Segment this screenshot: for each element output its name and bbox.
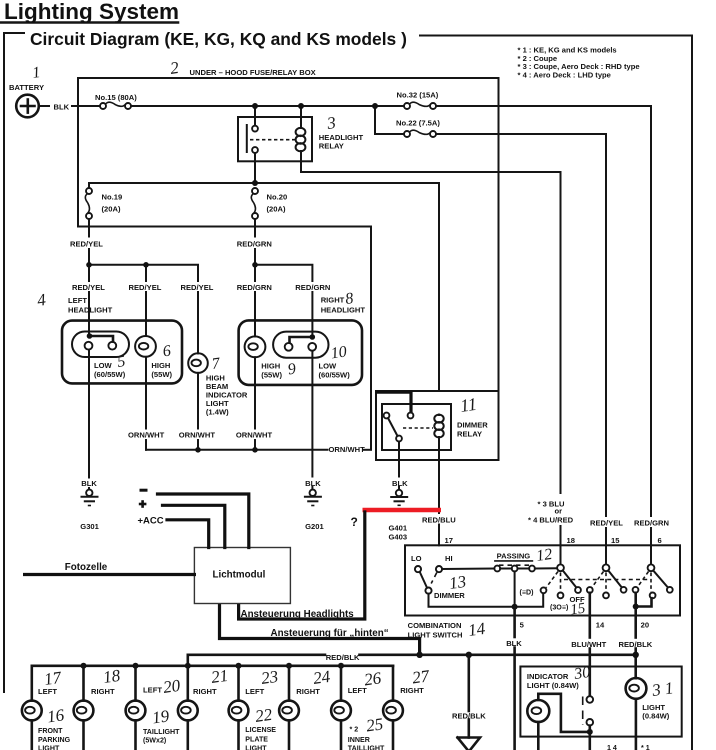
pole 15 lower contact	[603, 593, 609, 599]
svg-text:3 1: 3 1	[650, 678, 675, 700]
modified wire Fotozelle input	[25, 573, 195, 576]
wire: fused rail y183 from fuse No.19 to dimmer relay coil drop	[89, 183, 439, 391]
light 31 bulb (0.84W)	[626, 678, 647, 699]
svg-text:RED/GRN: RED/GRN	[634, 519, 669, 528]
fuse No.15 (80A)	[100, 102, 131, 109]
junction node rail y183 at relay output	[252, 180, 258, 186]
svg-text:TAILLIGHT: TAILLIGHT	[143, 728, 180, 736]
fuse No.19 (20A) vertical	[85, 188, 92, 219]
svg-text:(20A): (20A)	[102, 205, 121, 214]
svg-text:Circuit Diagram (KE, KG, KQ an: Circuit Diagram (KE, KG, KQ and KS model…	[30, 29, 407, 49]
junction node pin 20	[633, 604, 639, 610]
wire: indicator bulb feed loop	[538, 694, 590, 732]
Lichtmodul box	[194, 548, 290, 604]
svg-text:G401: G401	[389, 524, 408, 533]
svg-text:26: 26	[363, 668, 383, 689]
left high beam bulb 6 (55W)	[135, 336, 156, 357]
dimmer relay 11 outer case	[376, 391, 499, 460]
junction node bus end at pin 20 lead	[633, 652, 639, 658]
svg-text:(55W): (55W)	[151, 370, 172, 379]
switch inside indicator unit	[587, 696, 594, 703]
svg-text:UNDER – HOOD FUSE/RELAY BOX: UNDER – HOOD FUSE/RELAY BOX	[190, 68, 316, 77]
svg-text:LIGHT: LIGHT	[38, 745, 60, 750]
svg-text:RELAY: RELAY	[457, 430, 482, 439]
lamp 24 RIGHT license plate	[279, 666, 299, 750]
wire: pin 14 BLU/WHT lead down into indicator unit	[588, 593, 591, 638]
junction node main feed branch to fuse 22	[372, 103, 378, 109]
svg-text:G403: G403	[389, 533, 408, 542]
dimmer switch 13 common contact	[425, 588, 431, 594]
junction node RED/GRN rail at fuse20 column	[252, 262, 258, 268]
wire: pin 5 BLK lead down	[513, 607, 516, 637]
svg-text:HI: HI	[445, 554, 453, 563]
dimmer relay inner body	[382, 404, 451, 450]
svg-text:* 1: * 1	[641, 744, 650, 750]
junction node ORN/WHT bus at indicator	[195, 447, 201, 453]
pole 15 dashed drop	[605, 573, 607, 593]
svg-text:DIMMER: DIMMER	[434, 591, 465, 600]
wire: dimmer relay contact ground lead to G401	[398, 441, 400, 476]
wire: relay tap down to contact	[254, 106, 256, 126]
svg-text:G301: G301	[80, 522, 99, 531]
fuse No.22 (7.5A)	[404, 130, 436, 137]
dimmer switch blade LO to common	[420, 572, 427, 588]
wire: main feed after fuse No.32 turning down to pole of light switch pin 6	[436, 106, 651, 516]
wire: RED/GRN rail y265	[255, 265, 312, 281]
dimmer switch 13 HI contact fed by pin 17	[436, 566, 442, 572]
wire: dimmer common rail to flash contact	[429, 593, 544, 607]
svg-text:18: 18	[102, 666, 122, 687]
svg-text:BLK: BLK	[305, 479, 321, 488]
svg-text:LOW: LOW	[94, 361, 113, 370]
flash-to-pass contact	[541, 587, 547, 593]
svg-text:No.32 (15A): No.32 (15A)	[397, 91, 439, 100]
svg-text:INNER: INNER	[348, 736, 370, 744]
svg-text:14: 14	[467, 619, 487, 640]
wire: heading line from models ) to right edge, net to combination switch pin 6 column	[420, 36, 692, 750]
main light switch pole pin 15	[603, 564, 610, 571]
wire: pin 20 contact drop and link to pole 6 lower contact	[636, 593, 652, 607]
lamp 17 LEFT front parking	[22, 666, 42, 750]
svg-text:(5Wx2): (5Wx2)	[143, 736, 167, 744]
right low beam bulb 10 (60/55W) dual filament	[273, 332, 328, 358]
wire: high-beam routing loop left edge x78	[77, 78, 79, 227]
dimmer relay contact terminals	[384, 413, 390, 419]
junction node ORN/WHT bus at right high beam	[252, 447, 258, 453]
wire: branch down to fuse No.22	[375, 106, 404, 134]
wire: RED/BLK ground drop	[467, 655, 470, 711]
lamp bus for parking/tail lights	[32, 664, 393, 667]
headlight relay dashed link	[250, 139, 296, 141]
svg-text:No.20: No.20	[267, 193, 288, 202]
svg-text:RED/YEL: RED/YEL	[590, 519, 623, 528]
svg-text:LOW: LOW	[319, 362, 338, 371]
junction node on main feed at relay coil	[298, 103, 304, 109]
svg-text:BLK: BLK	[54, 103, 70, 112]
svg-text:or: or	[555, 507, 563, 516]
wire: high-beam routing loop top edge y78	[78, 77, 499, 79]
svg-text:LIGHT: LIGHT	[245, 745, 267, 750]
svg-text:21: 21	[210, 666, 229, 687]
lamp 26 LEFT inner taillight	[331, 666, 351, 750]
svg-text:Lighting System: Lighting System	[4, 0, 179, 24]
svg-text:BLK: BLK	[506, 639, 522, 648]
wire: high-beam routing loop bottom y226 to drop x371	[78, 227, 371, 449]
svg-text:RIGHT: RIGHT	[193, 687, 217, 696]
svg-text:LEFT: LEFT	[143, 686, 162, 695]
junction node common rail to pin 5	[512, 604, 518, 610]
svg-text:HIGH: HIGH	[261, 362, 280, 371]
ground G401 G403	[391, 490, 407, 506]
ground G301	[82, 490, 98, 506]
svg-text:17: 17	[445, 536, 453, 545]
svg-text:RED/YEL: RED/YEL	[129, 283, 162, 292]
svg-text:Ansteuerung für „hinten“: Ansteuerung für „hinten“	[271, 628, 389, 639]
pole 15 right contact	[621, 587, 627, 593]
svg-text:HEADLIGHT: HEADLIGHT	[68, 306, 113, 315]
pole 15 solid blade	[609, 571, 622, 588]
svg-text:RED/BLK: RED/BLK	[619, 640, 653, 649]
wire: ORN/WHT stub into drop	[364, 449, 371, 451]
svg-text:G201: G201	[305, 522, 324, 531]
label minus input	[140, 489, 148, 492]
pole 6 right contact	[667, 587, 673, 593]
svg-text:RED/BLK: RED/BLK	[326, 653, 360, 662]
svg-text:16: 16	[46, 705, 66, 726]
svg-text:No.15 (80A): No.15 (80A)	[95, 93, 137, 102]
wire: right low beam ground lead to G201 crossing ORN/WHT bus	[311, 351, 313, 477]
svg-text:(20A): (20A)	[267, 205, 286, 214]
left low beam bulb 5 (60/55W) dual filament	[72, 332, 129, 358]
svg-text:+ACC: +ACC	[138, 515, 164, 526]
svg-text:ORN/WHT: ORN/WHT	[128, 431, 165, 440]
left headlight 4 case	[62, 321, 182, 384]
modified wire +ACC input	[167, 520, 209, 548]
lamp 20 LEFT taillight	[126, 666, 146, 750]
svg-text:BLK: BLK	[392, 479, 408, 488]
svg-text:(60/55W): (60/55W)	[94, 370, 126, 379]
dimmer relay moving blade	[388, 418, 398, 436]
wire: bus to lamp bus connector	[187, 655, 190, 666]
labels ORN/WHT leads	[128, 430, 164, 440]
svg-text:RIGHT: RIGHT	[400, 686, 424, 695]
dimmer relay coil	[434, 415, 443, 438]
pole 18 lower contact	[558, 593, 564, 599]
main light switch pole pin 18	[557, 564, 564, 571]
dimmer switch dashed alternate blade	[431, 573, 437, 584]
dimmer relay dashed link to coil	[403, 427, 433, 429]
svg-text:Ansteuerung Headlights: Ansteuerung Headlights	[241, 609, 355, 620]
svg-text:No.22 (7.5A): No.22 (7.5A)	[396, 118, 440, 127]
pole 15 dashed blade	[592, 572, 604, 588]
svg-text:RED/YEL: RED/YEL	[70, 240, 103, 249]
svg-text:(1.4W): (1.4W)	[206, 408, 229, 417]
wire: pin 20 RED/BLK lead down	[634, 610, 637, 638]
wire: left margin bracket before Circuit Diagram heading	[4, 33, 24, 692]
fuse No.32 (15A)	[404, 102, 436, 109]
lamp 18 RIGHT front parking	[74, 666, 94, 750]
svg-text:1 4: 1 4	[607, 744, 617, 750]
wire: relay tap down to coil	[300, 106, 302, 128]
svg-text:LIGHT (0.84W): LIGHT (0.84W)	[527, 681, 579, 690]
wire: left low beam ground lead to G301	[88, 350, 90, 478]
svg-text:ORN/WHT: ORN/WHT	[236, 431, 273, 440]
svg-text:?: ?	[351, 515, 358, 529]
svg-text:LEFT: LEFT	[68, 296, 87, 305]
svg-text:RED/GRN: RED/GRN	[237, 283, 272, 292]
wire: dimmer coil drop down to red splice then RED/BLU to pin 17	[438, 437, 440, 513]
svg-text:PARKING: PARKING	[38, 736, 71, 744]
headlight relay coil	[296, 128, 306, 151]
RED/BLK bus	[188, 653, 325, 656]
svg-text:RED/GRN: RED/GRN	[295, 283, 330, 292]
wire: headlight relay contact output down to fuse rail	[254, 153, 256, 183]
svg-text:12: 12	[535, 546, 553, 565]
lamp 21 RIGHT taillight	[178, 666, 198, 750]
svg-text:BLK: BLK	[81, 479, 97, 488]
passing switch dashed gang link	[499, 564, 530, 566]
contact to pin 14	[587, 587, 593, 593]
right headlight 8 case	[239, 320, 362, 385]
svg-text:RIGHT: RIGHT	[296, 687, 320, 696]
svg-text:22: 22	[254, 705, 274, 726]
lamp 27 RIGHT inner taillight	[383, 666, 403, 750]
svg-text:6: 6	[658, 536, 662, 545]
svg-text:RED/BLK: RED/BLK	[452, 712, 486, 721]
svg-text:20: 20	[162, 676, 182, 697]
headlight relay contact	[247, 125, 258, 153]
svg-text:RIGHT: RIGHT	[321, 296, 345, 305]
wire: main feed fuse No.15 to fuse No.32 with relay taps	[131, 105, 404, 107]
svg-text:HIGH: HIGH	[151, 361, 170, 370]
svg-text:15: 15	[569, 600, 587, 618]
wire: fuse No.19 output RED/YEL down to rail y265	[88, 219, 90, 237]
svg-text:13: 13	[448, 572, 467, 593]
junction node on main feed at relay contact	[252, 103, 258, 109]
svg-text:25: 25	[365, 714, 384, 735]
indicator unit 30/31 box	[520, 667, 681, 737]
junction node RED/YEL rail at left high beam	[143, 262, 149, 268]
svg-text:RED/YEL: RED/YEL	[181, 283, 214, 292]
svg-text:23: 23	[260, 667, 279, 688]
pole 18 dashed drop	[560, 573, 562, 592]
pole 6 lower contact	[650, 593, 656, 599]
svg-text:* 4 : Aero Deck : LHD type: * 4 : Aero Deck : LHD type	[518, 71, 611, 80]
ground arrow triangle	[458, 738, 481, 750]
svg-text:(60/55W): (60/55W)	[319, 371, 351, 380]
modified wire minus input	[158, 494, 249, 548]
dimmer switch 13 LO contact	[415, 566, 421, 572]
wire: battery to fuse No.15 (BLK)	[39, 105, 49, 107]
wire: passing middle contact down to common rail	[514, 571, 516, 606]
svg-text:INDICATOR: INDICATOR	[527, 672, 569, 681]
svg-text:15: 15	[611, 536, 620, 545]
wire: right high beam lead down to ORN/WHT bus	[254, 357, 256, 450]
svg-text:RED/YEL: RED/YEL	[72, 283, 105, 292]
svg-text:LO: LO	[411, 554, 422, 563]
modified wire plus input	[163, 505, 225, 547]
wire: RED/YEL drop to left high beam	[145, 265, 147, 281]
svg-text:10: 10	[330, 343, 348, 362]
svg-text:LEFT: LEFT	[348, 686, 367, 695]
lamp 23 LEFT license plate	[229, 666, 249, 750]
pole 18 dashed blade	[546, 572, 558, 588]
svg-text:30: 30	[572, 664, 591, 683]
svg-text:RIGHT: RIGHT	[91, 687, 115, 696]
svg-text:LICENSE: LICENSE	[245, 726, 276, 734]
pole 6 solid blade	[654, 571, 668, 588]
wire: left high beam lead down to ORN/WHT bus	[145, 357, 147, 450]
wire: after fuse No.22 turning down to pole of light switch pin 15	[436, 134, 606, 516]
svg-text:LEFT: LEFT	[245, 687, 264, 696]
fuse No.20 (20A) vertical	[251, 188, 258, 219]
wire: indicator bulb 30 bottom lead	[537, 722, 540, 750]
svg-text:ORN/WHT: ORN/WHT	[329, 445, 366, 454]
wire: high beam indicator lead down to ORN/WHT bus	[197, 373, 199, 450]
svg-text:DIMMER: DIMMER	[457, 421, 488, 430]
svg-text:* 4 BLU/RED: * 4 BLU/RED	[528, 516, 574, 525]
modified wire Ansteuerung Headlights riser	[239, 512, 365, 619]
svg-text:HEADLIGHT: HEADLIGHT	[321, 306, 366, 315]
headlight relay 3 box	[238, 117, 312, 161]
svg-text:PASSING: PASSING	[497, 552, 531, 561]
dimmer relay feed lead along case top into contact	[377, 392, 411, 412]
svg-text:18: 18	[567, 536, 575, 545]
svg-text:LEFT: LEFT	[38, 687, 57, 696]
svg-text:RED/GRN: RED/GRN	[237, 240, 272, 249]
pole 6 dashed drop	[650, 573, 652, 593]
wire: fuse No.20 output RED/GRN down to rail y265	[254, 219, 256, 237]
svg-text:PLATE: PLATE	[245, 735, 268, 743]
svg-text:FRONT: FRONT	[38, 727, 63, 735]
modified wire Ansteuerung fuer hinten	[220, 604, 420, 655]
ground G201	[305, 490, 321, 506]
combination light switch 14 box	[405, 545, 680, 615]
svg-text:COMBINATION: COMBINATION	[408, 621, 462, 630]
svg-text:Fotozelle: Fotozelle	[65, 562, 108, 573]
modified red wire from dimmer ground to Lichtmodul	[363, 508, 442, 513]
high beam indicator light 7 (1.4W)	[188, 353, 208, 373]
svg-text:Lichtmodul: Lichtmodul	[213, 570, 266, 581]
junction node bus at hinten wire	[416, 652, 422, 658]
svg-text:No.19: No.19	[102, 193, 123, 202]
indicator light 30 bulb (0.84W)	[527, 700, 549, 722]
svg-text:BLU/WHT: BLU/WHT	[571, 640, 606, 649]
label plus input	[139, 503, 147, 506]
junction nodes on lamp bus	[81, 663, 87, 669]
svg-text:TAILLIGHT: TAILLIGHT	[348, 745, 385, 750]
pole 18 solid blade to OFF contact	[563, 571, 577, 588]
svg-text:11: 11	[459, 394, 478, 416]
wire: high-beam routing loop right drop x498 into dimmer relay case	[498, 78, 500, 391]
wire: headlight relay coil output to dimmer feed, y172 over to pin18 drop	[301, 151, 561, 493]
pole 6 dashed blade	[637, 572, 648, 588]
main light switch pole pin 6	[648, 564, 655, 571]
svg-text:* 2: * 2	[350, 726, 359, 734]
wire: HI contact over to passing contacts	[442, 568, 494, 571]
passing switch 12 contacts	[494, 566, 500, 572]
svg-text:(0.84W): (0.84W)	[642, 711, 669, 720]
svg-text:(3O≡): (3O≡)	[550, 603, 569, 611]
wire: light 31 bottom lead	[635, 699, 638, 750]
gang dashed line across poles	[564, 579, 649, 581]
svg-text:20: 20	[641, 621, 649, 630]
junction node RED/YEL rail at fuse19 column	[86, 262, 92, 268]
svg-text:(55W): (55W)	[261, 371, 282, 380]
junction node indicator feed	[587, 729, 593, 735]
svg-text:ORN/WHT: ORN/WHT	[179, 431, 216, 440]
wire: ORN/WHT high beam bus	[146, 449, 328, 451]
svg-text:BATTERY: BATTERY	[9, 83, 44, 92]
right high beam bulb 9 (55W)	[245, 336, 266, 357]
wire: title underline rule	[0, 21, 178, 24]
svg-text:RELAY: RELAY	[319, 142, 344, 151]
svg-text:24: 24	[312, 667, 332, 688]
svg-text:19: 19	[151, 706, 171, 727]
svg-text:14: 14	[596, 621, 605, 630]
contact to pin 20	[633, 587, 639, 593]
wire: RED/YEL rail y265	[89, 265, 198, 281]
wire: below indicator switch to image bottom	[588, 726, 591, 750]
svg-text:(≡D): (≡D)	[520, 589, 535, 597]
OFF contact	[575, 587, 581, 593]
svg-text:LIGHT SWITCH: LIGHT SWITCH	[408, 630, 463, 639]
svg-text:RED/BLU: RED/BLU	[422, 516, 456, 525]
battery 1	[16, 95, 39, 118]
junction node bus at RED/BLK ground drop	[466, 652, 472, 658]
